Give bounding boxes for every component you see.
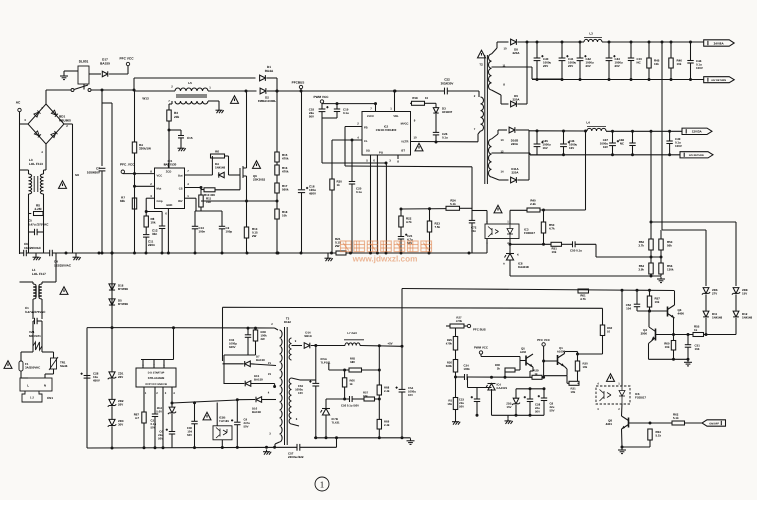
svg-text:450V: 450V	[309, 192, 316, 196]
junction 24v 671	[670, 41, 673, 44]
wire L5 bottom right	[208, 100, 219, 102]
wire D9 up	[526, 42, 528, 104]
wire D8 out	[518, 41, 538, 43]
junction r53 bottom	[660, 256, 663, 259]
opto-coupler IC3 FOD817 box	[485, 224, 519, 239]
wire 354 row	[578, 353, 603, 355]
wire zd3 down	[111, 427, 113, 449]
wire switch left	[46, 89, 71, 91]
junction d11 r55	[705, 333, 708, 336]
svg-text:102/250VAC: 102/250VAC	[24, 246, 42, 250]
svg-text:20V: 20V	[568, 64, 573, 68]
wire C49 bottom	[669, 144, 671, 155]
junction 12v 537	[536, 129, 539, 132]
diode D18	[109, 284, 115, 290]
wire r15-16	[276, 162, 278, 165]
wire c6b bottom	[171, 434, 173, 448]
resistor R60	[600, 325, 604, 336]
wire T2 primary pin2 stub	[478, 91, 480, 97]
wire c18 drop	[321, 104, 323, 109]
svg-text:PFC_VCC: PFC_VCC	[120, 163, 135, 167]
wire x112 down	[111, 103, 113, 253]
wire x222 down	[222, 307, 224, 361]
wire r66 bottom	[344, 387, 346, 399]
svg-text:50V: 50V	[535, 409, 540, 413]
fuse F1	[19, 361, 23, 371]
wire branch x102 to x112	[102, 102, 112, 104]
wire R11 top	[200, 190, 202, 196]
wire T2 primary bottom	[478, 131, 481, 134]
wire r6 right vert	[228, 156, 230, 175]
wire vz1 col left	[32, 321, 34, 346]
wire pfcbus stub	[300, 89, 302, 91]
wire str p2 stem	[154, 387, 156, 414]
wire zd1-zd2	[111, 379, 113, 400]
wire c57 up	[336, 438, 338, 447]
svg-text:4400: 4400	[678, 312, 685, 316]
wire sec8 lead2	[500, 95, 502, 104]
svg-text:10k: 10k	[552, 250, 557, 254]
wire pfcvccb stem	[543, 346, 545, 377]
svg-text:10k: 10k	[677, 62, 682, 66]
wire r28 bottom	[255, 341, 257, 355]
svg-text:24V RETURN: 24V RETURN	[711, 79, 726, 82]
wire C7 down	[101, 171, 103, 253]
capacitor C48	[629, 143, 635, 146]
svg-text:C56 0.1u /50V: C56 0.1u /50V	[341, 404, 359, 408]
junction 24vr 609	[608, 78, 611, 81]
wire opto p3 stem	[486, 239, 488, 254]
resistor R57b	[364, 397, 375, 401]
op-amp U1 IC1 FAN7530 box	[155, 168, 185, 209]
transformer T2 secondary lower	[489, 139, 492, 177]
transformer T2 primary	[481, 97, 484, 131]
shunt regulator IC4 KA431S	[486, 384, 496, 391]
svg-text:4.7k: 4.7k	[406, 220, 412, 224]
junction R4 vcc	[133, 172, 136, 175]
wire c15 gnd	[180, 138, 182, 146]
svg-text:SB1D: SB1D	[304, 334, 311, 338]
junction x277	[276, 90, 279, 93]
svg-text:BT: BT	[401, 150, 405, 153]
junction 24vr 649	[648, 78, 651, 81]
wire fb corner down	[471, 167, 473, 209]
svg-text:1k: 1k	[350, 382, 354, 386]
wire r5b top	[455, 377, 457, 398]
wire L1 right lead	[41, 282, 43, 284]
choke L1 right winding	[39, 284, 42, 299]
junction rail 134	[133, 252, 136, 255]
junction rail 277	[276, 252, 279, 255]
wire vcc return down	[321, 118, 323, 163]
wire cmp down	[145, 198, 147, 211]
wire r62 left	[650, 422, 672, 424]
capacitor C56	[350, 396, 353, 402]
wire q1 base row	[544, 360, 558, 362]
svg-text:12V/3A: 12V/3A	[692, 130, 703, 134]
wire ic6 out down	[621, 404, 624, 416]
wire fb stem	[345, 126, 362, 128]
wire c8 bottom	[543, 401, 545, 416]
svg-text:K: K	[517, 254, 519, 257]
svg-text:BA159: BA159	[254, 377, 263, 381]
wire c18 bottom	[321, 112, 323, 118]
junction 12v 585	[584, 130, 587, 133]
junction ovp tap	[276, 200, 279, 203]
svg-text:10: 10	[413, 136, 417, 140]
svg-text:RU4A: RU4A	[265, 69, 274, 73]
bridge diode 2	[51, 110, 58, 117]
zener ZD4	[168, 407, 176, 414]
wire C42 top	[579, 42, 581, 58]
capacitor C4	[50, 250, 53, 256]
wire D11A out	[518, 179, 530, 181]
svg-text:56k: 56k	[667, 244, 672, 248]
warning triangle near opto	[494, 205, 502, 213]
wire inv stem	[185, 197, 197, 199]
wire ground to relay	[63, 71, 65, 74]
diode D17	[102, 71, 107, 76]
wire c2 stub	[221, 211, 223, 226]
wire r65 right	[362, 369, 380, 371]
choke L3 core	[34, 176, 38, 192]
junction rail 222	[221, 252, 224, 255]
wire bus 395-443	[395, 90, 445, 92]
svg-text:26V: 26V	[118, 403, 123, 407]
capacitor C31	[152, 414, 158, 417]
wire L1 left bottom	[32, 299, 34, 319]
chassis ground near R21	[325, 256, 333, 261]
junction sgnd 379	[378, 436, 381, 439]
wire c56 to r57b	[352, 398, 364, 400]
wire T2 primary return	[477, 134, 479, 142]
rail primary y253 c	[52, 252, 336, 254]
wire snub row	[224, 354, 256, 356]
wire r40 up	[585, 131, 587, 210]
wire sec13 lead	[492, 134, 499, 139]
svg-text:50V: 50V	[158, 436, 163, 440]
junction rail 278	[277, 252, 280, 255]
wire top bus y78	[134, 77, 256, 79]
svg-text:10: 10	[503, 47, 507, 51]
wire zd8 to d12	[735, 295, 737, 312]
svg-text:2.4k: 2.4k	[384, 423, 390, 427]
capacitor C40	[534, 55, 544, 61]
junction 12v 563	[562, 130, 565, 133]
svg-text:ZCD: ZCD	[166, 171, 172, 174]
junction str startup	[172, 326, 175, 329]
transistor Q2 MOSFET Q6	[240, 166, 247, 178]
svg-text:C15: C15	[187, 136, 193, 140]
junction c26 vctr	[435, 141, 438, 144]
wire r23 top	[429, 209, 431, 221]
terminal AC	[18, 108, 21, 111]
diode D11	[703, 311, 709, 317]
wire l7 out	[360, 345, 402, 348]
wire c33 top	[247, 328, 249, 335]
wire x651 12v down	[650, 131, 652, 222]
wire r28 top	[255, 328, 257, 330]
wire D2 to junction	[267, 90, 277, 92]
junction 12vr 669	[668, 153, 671, 156]
junction sb 144	[143, 446, 146, 449]
wire c13 stub	[194, 211, 196, 226]
wire q8 base row	[629, 422, 651, 424]
svg-text:20V: 20V	[543, 64, 548, 68]
junction D8 D9	[526, 41, 529, 44]
wire zd2-zd3	[111, 407, 113, 420]
svg-text:330k/1W: 330k/1W	[139, 147, 151, 151]
resistor R23	[427, 221, 431, 232]
svg-text:5.1k: 5.1k	[673, 416, 679, 420]
wire c51 top	[687, 335, 689, 345]
wire r65 row	[329, 369, 349, 371]
bridge rectifier BD1	[28, 104, 64, 144]
svg-text:LOL F113: LOL F113	[29, 162, 43, 166]
svg-text:220A: 220A	[513, 98, 521, 102]
wire bus 277-395	[277, 90, 395, 92]
svg-text:4.7: 4.7	[135, 416, 139, 420]
junction pin1 bus	[393, 90, 396, 93]
junction 24v 562	[561, 41, 564, 44]
ground Q8	[618, 448, 626, 454]
wire d7 right	[250, 364, 276, 366]
wire C48 top	[632, 131, 634, 142]
wire sg return	[322, 162, 386, 164]
wire C45 top	[536, 131, 538, 144]
wire c8 top	[543, 389, 545, 398]
inductor L4	[587, 128, 606, 131]
transformer T2 secondary upper	[489, 54, 492, 90]
svg-text:AC: AC	[16, 101, 21, 105]
wire sec11 down	[531, 67, 533, 79]
svg-text:BYW96: BYW96	[118, 287, 128, 291]
wire r69 top	[378, 399, 380, 419]
wire L1 left lead	[32, 282, 34, 284]
wire sec14 lead	[492, 177, 500, 180]
svg-text:10k: 10k	[282, 214, 287, 218]
junction gnd 359	[687, 358, 690, 361]
junction r50 top	[542, 209, 545, 212]
chassis ground R5b	[452, 420, 460, 425]
transformer T3 secondary top	[289, 338, 291, 360]
junction 637 290	[636, 289, 639, 292]
wire inv net	[195, 198, 197, 211]
svg-text:P2: P2	[268, 373, 272, 376]
resistor R56	[659, 263, 663, 274]
wire +5v vert	[401, 289, 403, 347]
svg-text:470k: 470k	[282, 157, 289, 161]
wire zd6 top	[705, 230, 707, 286]
svg-text:SG: SG	[366, 150, 370, 153]
wire gate wire	[229, 174, 241, 176]
svg-text:2.2M: 2.2M	[35, 207, 42, 211]
wire r60 bottom	[602, 336, 604, 355]
wire C11 bottom	[145, 237, 147, 253]
wire C44 top	[690, 42, 692, 60]
wire r22 row	[401, 208, 446, 210]
wire pin5 elbow	[167, 162, 170, 164]
wire c18 c19 join	[322, 117, 337, 119]
junction x651 222	[650, 221, 653, 224]
wire c16 top	[301, 91, 303, 189]
junction r50 bottom	[542, 243, 545, 246]
wire D17 to PFC VCC	[109, 73, 128, 75]
wire r18b bottom	[276, 219, 278, 253]
svg-text:13: 13	[500, 138, 504, 142]
wire x134 up	[133, 78, 135, 90]
wire relay to D17	[89, 73, 101, 75]
wire PFC_VCC to IC1	[123, 173, 155, 175]
wire q5 emitter drop2	[530, 370, 533, 372]
wire r25-r26	[455, 350, 457, 360]
svg-text:100n: 100n	[199, 230, 206, 234]
wire q5 base up	[519, 357, 521, 371]
svg-text:PFCBUS: PFCBUS	[292, 81, 305, 85]
wire r26 bottom	[455, 372, 457, 377]
capacitor C51	[685, 345, 691, 348]
svg-text:2k: 2k	[497, 366, 501, 370]
capacitor C20	[349, 182, 355, 185]
capacitor C33	[245, 335, 251, 338]
junction 12v 632	[631, 130, 634, 133]
svg-text:15V: 15V	[507, 405, 512, 409]
wire c30 bottom	[194, 424, 196, 448]
svg-text:VCC: VCC	[157, 175, 163, 178]
capacitor C43	[606, 55, 616, 61]
wire R11 bottom	[200, 207, 202, 211]
junction drain node	[245, 90, 248, 93]
svg-text:1k: 1k	[694, 328, 698, 332]
rail 24V b	[602, 41, 704, 43]
svg-text:Cmp: Cmp	[157, 200, 163, 203]
inductor L5 core	[176, 95, 207, 97]
IC8 KA431 symbol	[505, 254, 515, 261]
svg-text:C50 0.1u: C50 0.1u	[570, 249, 582, 253]
junction q1 coll	[576, 353, 579, 356]
rail 24V a	[527, 41, 584, 43]
junction rail 386	[385, 252, 388, 255]
svg-text:63k: 63k	[120, 199, 125, 203]
svg-text:1k: 1k	[337, 183, 341, 187]
junction sb 274	[273, 446, 276, 449]
svg-text:50V: 50V	[550, 408, 555, 412]
junction x112 327	[111, 326, 114, 329]
wire to L3 right	[44, 169, 47, 171]
opto IC6 phototransistor	[600, 390, 612, 402]
connector ON/OFF	[702, 420, 726, 426]
junction cl c20	[351, 139, 354, 142]
wire R8 bottom	[145, 227, 147, 234]
wire str p3 stem	[162, 387, 164, 448]
ground anode row	[657, 277, 665, 283]
svg-text:3.9k: 3.9k	[638, 268, 644, 272]
svg-text:10: 10	[425, 96, 429, 100]
wire Q6 drain	[246, 91, 248, 168]
wire c30 stem	[194, 403, 196, 421]
wire TR1 down	[53, 352, 55, 358]
svg-text:LVCC: LVCC	[367, 115, 374, 118]
wire x111 d18 col	[111, 253, 113, 328]
junction 24vr 671	[670, 78, 673, 81]
terminal PFC BUS	[467, 324, 470, 327]
wire R21 gnd stub	[327, 253, 329, 256]
wire C46 top	[563, 131, 565, 144]
svg-text:BA158: BA158	[252, 410, 261, 414]
resistor R31	[569, 381, 579, 385]
warning triangle near L5	[231, 96, 239, 104]
capacitor C22	[445, 88, 448, 95]
switch contact left	[71, 89, 74, 92]
wire r67 bottom	[143, 423, 145, 448]
wire switch to corner	[91, 89, 134, 91]
capacitor C49	[666, 141, 672, 144]
resistor R30	[505, 368, 515, 372]
warning triangle near L3	[59, 181, 67, 189]
warning triangle near F1	[4, 361, 12, 369]
rail primary y253 a	[20, 252, 24, 254]
junction sgnd 336	[335, 436, 338, 439]
transformer T3 primary	[280, 330, 283, 442]
wire c19 bottom	[336, 112, 338, 119]
wire x28 down	[28, 232, 30, 253]
resistor R69	[377, 419, 381, 429]
capacitor C13	[192, 226, 198, 229]
svg-text:0.47u /275VAC: 0.47u /275VAC	[28, 222, 49, 226]
wire err row a	[456, 376, 465, 378]
svg-text:104: 104	[626, 307, 631, 311]
watermark line1	[341, 241, 352, 252]
wire AC down	[19, 112, 21, 254]
junction fb node	[171, 402, 174, 405]
wire ground to relay2	[64, 70, 78, 72]
wire ic5b coll stem	[216, 403, 218, 426]
wire PFC_VCC stub	[122, 172, 124, 174]
resistor R24	[446, 206, 460, 210]
svg-text:SG46: SG46	[60, 364, 68, 368]
resistor R8	[144, 216, 148, 227]
wire q4 emitter	[673, 318, 675, 335]
wire zd5 net top	[515, 389, 517, 398]
wire c9 stem	[236, 400, 238, 422]
zener ZD8	[732, 288, 740, 295]
junction r68 bottom	[378, 398, 381, 401]
wire C1 row left	[33, 320, 34, 322]
junction c33 top	[247, 327, 250, 330]
wire c20 bottom	[351, 184, 353, 253]
junction sb 237	[236, 446, 239, 449]
capacitor C46	[560, 141, 570, 147]
resistor R15	[275, 152, 279, 162]
transformer T3 core	[285, 327, 288, 445]
wire sec11 row	[532, 78, 562, 80]
capacitor C72	[469, 220, 475, 223]
svg-text:10k: 10k	[151, 221, 156, 225]
wire L3 right lead	[43, 170, 45, 174]
wire bridge right corner	[64, 123, 73, 125]
junction cs r11	[200, 186, 203, 189]
junction sg return	[385, 162, 388, 165]
wire R10 to gate	[215, 189, 240, 191]
wire bridge-top to switch	[45, 90, 47, 104]
svg-text:100V: 100V	[675, 144, 682, 148]
wire ic5a led down	[328, 363, 330, 370]
junction q4 e	[672, 333, 675, 336]
junction r28 top	[254, 327, 257, 330]
wire r53 bottom	[660, 250, 662, 257]
junction x112 rail	[111, 252, 114, 255]
wire zd4 stem	[171, 403, 173, 407]
